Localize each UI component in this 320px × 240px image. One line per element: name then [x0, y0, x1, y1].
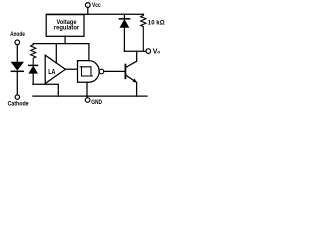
svg-text:regulator: regulator — [54, 25, 80, 32]
wire internal power bar — [33, 43, 89, 45]
svg-text:Vcc: Vcc — [92, 2, 101, 9]
svg-text:o: o — [157, 50, 160, 55]
wire gate ground — [86, 82, 88, 98]
svg-text:10 kΩ: 10 kΩ — [148, 19, 165, 26]
wire regulator output — [64, 36, 66, 43]
terminal GND — [85, 98, 102, 106]
terminal Cathode — [8, 95, 29, 107]
resistor R2 10 kOhm — [141, 14, 165, 51]
svg-text:Anode: Anode — [10, 31, 25, 38]
schmitt gate U2 — [78, 61, 104, 83]
bottom rail — [33, 95, 147, 97]
svg-text:GND: GND — [91, 99, 102, 106]
node bar Vo — [124, 50, 145, 52]
wire gate output to base — [104, 70, 126, 72]
photodiode D2 — [29, 65, 38, 84]
wire LA ground return — [33, 84, 58, 96]
wire gate power — [88, 44, 90, 61]
op-amp LA (limiting amplifier) — [45, 55, 65, 83]
resistor R1 (photodiode bias) — [31, 44, 36, 65]
wire LA output — [65, 68, 77, 70]
svg-text:Cathode: Cathode — [8, 100, 29, 107]
wire top Vcc rail — [46, 13, 143, 15]
diode D3 (clamp) — [119, 14, 129, 51]
wire LA power — [55, 44, 57, 63]
svg-text:LA: LA — [48, 69, 55, 76]
LED D1 — [11, 45, 23, 95]
voltage regulator U1 — [46, 15, 84, 37]
terminal Anode — [10, 31, 25, 45]
terminal Vo — [146, 48, 160, 55]
terminal Vcc — [85, 2, 101, 15]
transistor Q1 — [125, 51, 137, 96]
